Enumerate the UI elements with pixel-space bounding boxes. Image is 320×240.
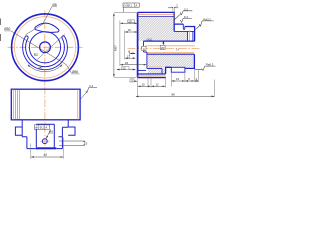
dim 53 <box>130 52 136 54</box>
dim 58 <box>125 57 135 59</box>
main rect <box>11 89 80 120</box>
bottom dim ext <box>31 138 64 159</box>
axis centerline <box>128 47 200 49</box>
svg-text:Ø56: Ø56 <box>72 70 78 74</box>
center hole <box>40 42 51 53</box>
svg-text:M20: M20 <box>147 37 153 41</box>
roughness D <box>195 66 216 70</box>
svg-text:10: 10 <box>142 82 146 86</box>
slot top cap right <box>57 30 59 32</box>
svg-text:Ra3.2: Ra3.2 <box>203 17 211 21</box>
knurl lines <box>16 89 20 119</box>
dim 23 <box>120 22 137 24</box>
roughness A <box>174 11 192 20</box>
lower step right <box>56 137 62 149</box>
dim 20 <box>138 85 151 87</box>
counterbore bottom <box>147 68 162 70</box>
hatch body upper <box>138 17 174 41</box>
outline top <box>138 12 195 74</box>
thread line left <box>13 90 15 120</box>
bottom recess white <box>171 67 185 72</box>
boss bottom thick <box>36 147 56 149</box>
boss <box>36 124 54 147</box>
roughness C <box>196 21 214 30</box>
leader B <box>43 7 52 25</box>
svg-text:14: 14 <box>176 47 180 51</box>
leader A <box>11 31 72 73</box>
crop marks left <box>0 19 2 42</box>
bore thread top <box>146 45 195 47</box>
cylinder line top <box>139 15 174 17</box>
hatch lower mid <box>162 54 171 67</box>
dim 4 <box>195 80 198 82</box>
counterbore wall <box>161 69 163 74</box>
hatch lower counterbore ring <box>148 69 166 74</box>
thread end line 2 <box>192 31 194 41</box>
svg-text:Ø8: Ø8 <box>52 3 56 7</box>
centerline vertical <box>44 11 46 86</box>
roughness side <box>81 92 87 99</box>
hatch flange band <box>138 74 165 77</box>
slot bottom outer arc <box>23 36 68 70</box>
slot bottom cap right <box>62 36 65 38</box>
slot bottom cap left <box>26 36 29 38</box>
svg-text:13: 13 <box>176 77 180 81</box>
top narrow dim <box>173 7 174 24</box>
counterbore thread orange <box>147 66 162 68</box>
hatch right upper <box>174 31 187 41</box>
datum box A <box>142 46 146 50</box>
pin channel <box>59 141 85 145</box>
thread end line <box>187 31 189 41</box>
bore dim box <box>160 45 165 49</box>
centerline horizontal <box>8 46 83 48</box>
overall dim <box>136 95 214 97</box>
dim 6 <box>185 80 194 82</box>
left recess wall <box>144 41 147 68</box>
svg-text:A: A <box>45 126 47 130</box>
groove top <box>183 24 185 29</box>
recess bottom <box>137 69 146 71</box>
slot top lower arc <box>37 30 57 32</box>
svg-text:Ø.1: Ø.1 <box>128 3 133 7</box>
left ext verticals <box>120 21 129 67</box>
tolerance frame top <box>123 3 139 7</box>
bottom ext lines <box>137 69 214 97</box>
svg-text:A: A <box>143 47 145 51</box>
svg-text:A: A <box>135 3 137 7</box>
dim 32 <box>125 31 137 33</box>
leader C <box>26 24 44 35</box>
tol leader <box>46 129 51 138</box>
left wall <box>21 120 23 137</box>
thread line right <box>77 90 79 120</box>
svg-text:6.3: 6.3 <box>89 84 93 88</box>
svg-text:45°: 45° <box>38 66 44 70</box>
circle bore <box>29 32 60 63</box>
svg-text:3.2: 3.2 <box>184 7 188 11</box>
leader E <box>37 34 65 60</box>
tolerance frame <box>34 125 49 129</box>
outer circle (thread major) <box>12 14 79 81</box>
svg-text:R2: R2 <box>34 53 38 57</box>
left face <box>137 12 139 77</box>
svg-text:20: 20 <box>128 19 132 23</box>
tol leader <box>122 7 124 12</box>
flange thread band <box>138 73 166 75</box>
svg-text:25: 25 <box>123 66 127 70</box>
pin dim <box>83 141 85 145</box>
svg-text:86: 86 <box>172 92 176 96</box>
thread end orange <box>188 30 190 41</box>
vertical dim <box>113 13 115 76</box>
dim 13 <box>172 80 185 82</box>
svg-text:18: 18 <box>125 61 129 65</box>
dim 64 <box>120 64 146 66</box>
recess width dim <box>141 46 144 48</box>
slot top upper arc <box>35 23 59 29</box>
svg-text:Ø.2: Ø.2 <box>40 126 45 130</box>
slot top cap left <box>35 27 37 30</box>
svg-text:40: 40 <box>44 153 48 157</box>
svg-text:M67: M67 <box>114 45 118 51</box>
hatch lower right <box>171 54 194 67</box>
hole crosshair <box>40 140 50 142</box>
right wall steps <box>62 120 68 137</box>
dim small left <box>130 80 138 82</box>
roughness B <box>180 18 192 22</box>
svg-text:Ø30: Ø30 <box>4 27 10 31</box>
svg-text:Ra6.3: Ra6.3 <box>206 63 214 67</box>
dim ext top left <box>114 12 137 14</box>
left tab <box>15 127 22 135</box>
bore top edge <box>144 40 195 42</box>
dim 15 <box>151 85 165 87</box>
slot bottom inner arc <box>26 38 65 67</box>
svg-text:15: 15 <box>128 28 132 32</box>
hole <box>42 139 47 144</box>
angle dim arc <box>28 65 63 72</box>
svg-text:12: 12 <box>127 54 131 58</box>
svg-text:12: 12 <box>156 82 160 86</box>
thread major top <box>139 13 174 15</box>
svg-text:6.3: 6.3 <box>184 15 188 19</box>
centerline <box>44 87 46 152</box>
hatch lower left <box>147 54 162 67</box>
svg-text:20: 20 <box>161 46 165 50</box>
hole wall right <box>174 30 194 32</box>
bore thread bottom <box>146 52 194 54</box>
right tab <box>68 127 75 135</box>
bottom dim <box>31 156 63 158</box>
lower step left <box>22 137 36 149</box>
bore bottom edge <box>147 53 195 55</box>
thread minor circle (orange) <box>14 17 75 78</box>
dim 69 boxed <box>117 69 135 71</box>
